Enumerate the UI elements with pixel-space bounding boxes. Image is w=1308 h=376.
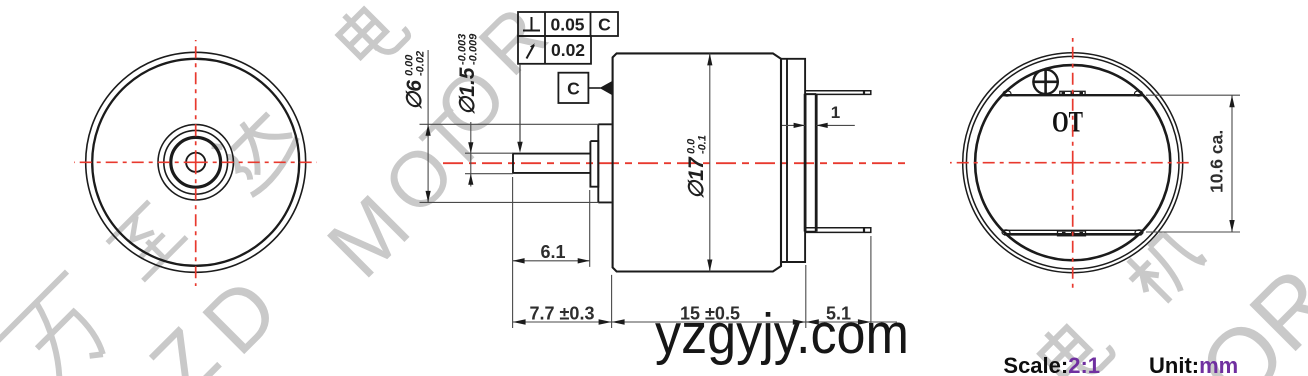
phi6 extension lines	[420, 124, 599, 202]
perpendicularity symbol	[523, 17, 540, 31]
svg-text:-0.02: -0.02	[415, 51, 427, 76]
shaft	[513, 154, 590, 173]
wm char dian	[332, 0, 411, 71]
dim texts	[530, 103, 851, 324]
runout symbol arrowhead	[530, 43, 535, 48]
boss phi6	[598, 124, 611, 202]
bottom terminal tick	[863, 227, 865, 233]
bottom dim line	[513, 321, 897, 323]
wm char wan	[0, 272, 126, 376]
top tab	[1060, 91, 1085, 95]
right outer circle	[963, 53, 1183, 273]
right can circle thick	[975, 65, 1170, 260]
6.1 arrows	[513, 258, 525, 263]
wm char ji	[1119, 222, 1208, 311]
bottom tab	[1058, 231, 1086, 236]
bump top-right	[1135, 91, 1143, 96]
svg-text:10.6 ca.: 10.6 ca.	[1207, 130, 1227, 193]
motor body	[613, 53, 781, 271]
svg-text:OT: OT	[1052, 106, 1083, 139]
svg-text:Scale:2:1: Scale:2:1	[1003, 353, 1100, 376]
top terminal tick	[863, 90, 865, 95]
FCF row1 box	[518, 12, 618, 36]
datum leader	[588, 87, 600, 89]
datum triangle filled	[600, 81, 613, 96]
svg-text:0.02: 0.02	[551, 40, 585, 60]
phi6 arrows	[426, 124, 431, 136]
ext verticals bottom	[513, 177, 871, 328]
left view hub circle 1	[158, 125, 233, 200]
phi1.5 label	[456, 33, 480, 115]
bump bottom-left	[1002, 230, 1010, 235]
dim 10.6 extension lines	[1146, 95, 1240, 232]
left view inner outline circle	[92, 59, 299, 266]
phi17 arrows	[707, 53, 712, 65]
phi6 label	[403, 51, 427, 110]
end plate thick edges	[805, 94, 816, 232]
middle centerline	[443, 162, 906, 164]
left view shaft circle	[186, 153, 205, 172]
FCF leader to shaft	[519, 64, 521, 146]
svg-text:Unit:mm: Unit:mm	[1149, 353, 1238, 376]
FCF texts	[550, 15, 611, 99]
svg-text:∅1.5: ∅1.5	[456, 67, 479, 115]
svg-text:0.05: 0.05	[550, 15, 584, 35]
svg-text:C: C	[567, 79, 580, 99]
svg-text:∅6: ∅6	[403, 80, 426, 110]
svg-text:C: C	[598, 15, 611, 35]
scale and unit	[1003, 353, 1238, 376]
phi1.5 extension lines	[465, 153, 513, 174]
datum C box	[558, 73, 588, 103]
end plate top and bottom	[805, 94, 816, 232]
phi17 dim line	[709, 53, 711, 271]
end cap	[781, 59, 805, 262]
left view hub circle 2	[164, 130, 228, 194]
svg-text:∅17: ∅17	[685, 156, 708, 199]
bottom chord thin	[1002, 229, 1143, 231]
FCF row2 box	[518, 36, 591, 64]
left view centerline horizontal	[74, 161, 317, 163]
bump bottom-right	[1135, 230, 1143, 235]
bump top-left	[1003, 91, 1011, 96]
phi17 label	[685, 135, 709, 199]
dim 1 lines	[782, 124, 855, 126]
wm char zhi	[106, 200, 186, 280]
bottom terminal	[805, 228, 871, 233]
bottom dim arrows	[513, 319, 526, 325]
left view outer circle	[86, 52, 306, 272]
arrows	[426, 53, 871, 324]
dim 1 arrows	[794, 123, 806, 128]
left view hub circle 3 thick	[171, 137, 221, 187]
phi1.5 arrows (outside)	[468, 142, 473, 153]
svg-text:yzgyjy.com: yzgyjy.com	[655, 302, 909, 366]
svg-text:-0.1: -0.1	[697, 135, 709, 154]
svg-text:-0.009: -0.009	[468, 33, 480, 65]
vent hole symbol	[1033, 70, 1057, 94]
dim 10.6 line	[1231, 95, 1233, 232]
bottom chord thick	[1004, 233, 1142, 236]
wm char da	[207, 99, 305, 197]
svg-text:6.1: 6.1	[540, 242, 565, 262]
tab tick marks	[1062, 92, 1084, 235]
right view centerline vertical	[1072, 38, 1074, 288]
left view centerline vertical	[195, 40, 197, 286]
phi1.5 dim line	[470, 122, 472, 187]
right mid circle	[966, 56, 1179, 269]
wm char dian 2	[1033, 309, 1115, 376]
dim 6.1 line	[513, 260, 590, 262]
right view centerline horizontal	[950, 162, 1190, 164]
svg-text:7.7 ±0.3: 7.7 ±0.3	[530, 304, 595, 324]
bushing	[590, 141, 598, 187]
top terminal	[805, 91, 871, 95]
top chord flat	[1002, 94, 1143, 96]
phi6 dim line	[427, 50, 429, 202]
svg-text:1: 1	[831, 103, 840, 122]
runout symbol	[527, 45, 535, 59]
